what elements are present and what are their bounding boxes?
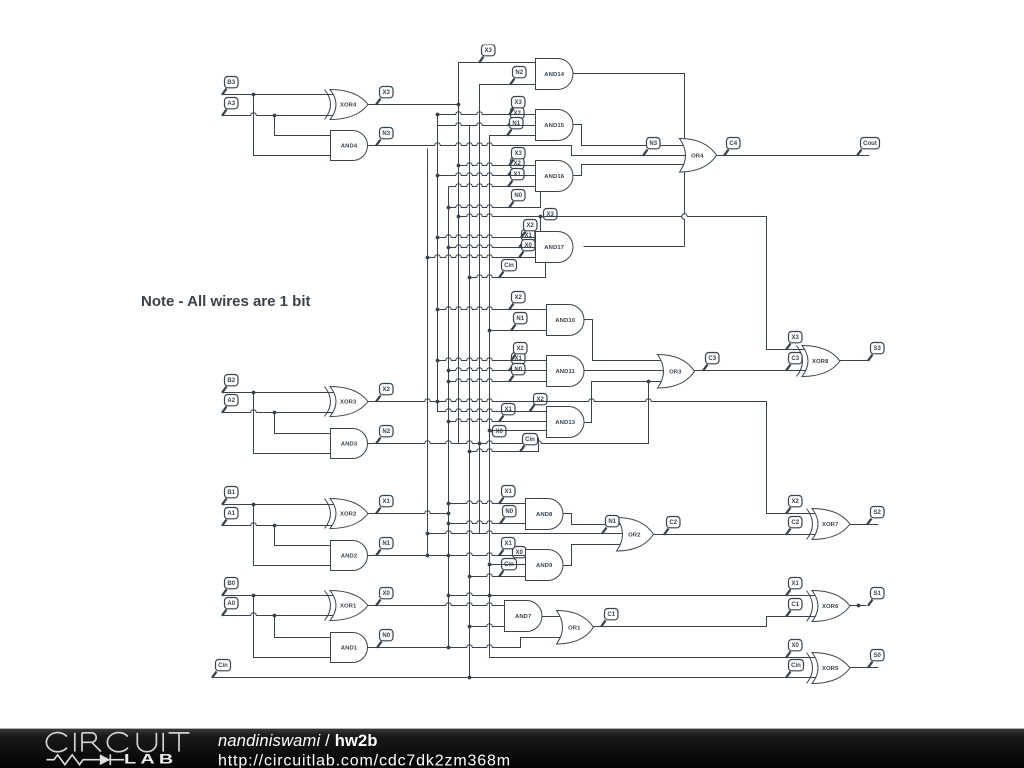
svg-text:C1: C1: [607, 612, 615, 618]
svg-text:X1: X1: [525, 233, 533, 239]
svg-text:X1: X1: [505, 489, 513, 495]
svg-text:AND13: AND13: [555, 420, 575, 426]
svg-text:AND14: AND14: [544, 72, 564, 78]
svg-text:Cin: Cin: [791, 663, 801, 669]
svg-text:C1: C1: [791, 602, 799, 608]
svg-text:AND9: AND9: [536, 563, 553, 569]
svg-text:X3: X3: [515, 100, 523, 106]
svg-text:XOR6: XOR6: [822, 604, 839, 610]
svg-text:N3: N3: [649, 141, 657, 147]
svg-text:X2: X2: [514, 161, 522, 167]
svg-text:AND7: AND7: [515, 614, 532, 620]
svg-text:X3: X3: [485, 48, 493, 54]
svg-text:XOR3: XOR3: [340, 400, 357, 406]
svg-text:AND8: AND8: [536, 512, 553, 518]
svg-text:N0: N0: [382, 633, 390, 639]
svg-text:XOR8: XOR8: [812, 359, 829, 365]
svg-text:X2: X2: [537, 397, 545, 403]
svg-text:S3: S3: [874, 346, 882, 352]
svg-text:X0: X0: [792, 643, 800, 649]
svg-text:X2: X2: [383, 387, 391, 393]
svg-text:nandiniswami / hw2b: nandiniswami / hw2b: [218, 732, 378, 750]
svg-text:B0: B0: [227, 581, 235, 587]
svg-text:X1: X1: [505, 407, 513, 413]
svg-text:XOR5: XOR5: [822, 666, 839, 672]
svg-text:Cin: Cin: [218, 663, 228, 669]
svg-text:Cin: Cin: [504, 263, 514, 269]
svg-text:A3: A3: [227, 101, 235, 107]
svg-text:X2: X2: [517, 346, 525, 352]
svg-text:A2: A2: [227, 398, 235, 404]
svg-text:AND4: AND4: [341, 144, 358, 150]
svg-text:Cout: Cout: [863, 141, 877, 147]
svg-text:N1: N1: [608, 519, 616, 525]
svg-text:OR2: OR2: [628, 533, 641, 539]
svg-text:X3: X3: [792, 335, 800, 341]
svg-text:AND17: AND17: [544, 245, 564, 251]
svg-text:http://circuitlab.com/cdc7dk2z: http://circuitlab.com/cdc7dk2zm368m: [218, 753, 511, 768]
svg-text:AND2: AND2: [341, 554, 358, 560]
svg-text:X2: X2: [527, 223, 535, 229]
svg-text:C3: C3: [708, 356, 716, 362]
svg-text:S2: S2: [874, 510, 882, 516]
svg-text:C3: C3: [791, 356, 799, 362]
svg-text:A0: A0: [227, 601, 235, 607]
svg-text:N0: N0: [514, 193, 522, 199]
svg-text:AND15: AND15: [544, 123, 564, 129]
svg-text:C2: C2: [669, 520, 677, 526]
svg-text:X1: X1: [792, 581, 800, 587]
svg-text:X1: X1: [515, 356, 523, 362]
svg-text:X1: X1: [383, 499, 391, 505]
svg-text:XOR1: XOR1: [340, 604, 357, 610]
svg-text:LAB: LAB: [124, 750, 177, 766]
svg-text:X3: X3: [383, 90, 391, 96]
svg-text:A1: A1: [227, 511, 235, 517]
svg-text:OR4: OR4: [691, 153, 704, 159]
svg-text:B1: B1: [227, 490, 235, 496]
svg-text:B3: B3: [227, 80, 235, 86]
svg-text:X0: X0: [383, 591, 391, 597]
svg-text:X2: X2: [792, 499, 800, 505]
svg-text:C4: C4: [729, 141, 737, 147]
svg-text:N0: N0: [505, 509, 513, 515]
svg-text:OR3: OR3: [669, 369, 682, 375]
svg-text:Cin: Cin: [525, 437, 535, 443]
svg-text:AND16: AND16: [544, 174, 564, 180]
svg-text:Note - All wires are 1 bit: Note - All wires are 1 bit: [141, 293, 311, 310]
svg-text:X1: X1: [505, 541, 513, 547]
svg-text:X0: X0: [525, 243, 533, 249]
svg-text:N2: N2: [382, 429, 390, 435]
svg-text:XOR2: XOR2: [340, 512, 357, 518]
svg-text:AND10: AND10: [555, 318, 575, 324]
svg-text:XOR7: XOR7: [822, 522, 839, 528]
svg-text:N2: N2: [515, 70, 523, 76]
svg-text:N1: N1: [382, 541, 390, 547]
svg-text:X3: X3: [547, 212, 555, 218]
svg-text:C2: C2: [791, 520, 799, 526]
svg-text:S0: S0: [874, 653, 882, 659]
svg-text:S1: S1: [874, 591, 882, 597]
svg-text:N3: N3: [382, 131, 390, 137]
svg-text:N1: N1: [512, 121, 520, 127]
svg-text:Cin: Cin: [504, 562, 514, 568]
svg-text:OR1: OR1: [568, 626, 581, 632]
svg-text:X3: X3: [515, 151, 523, 157]
svg-text:B2: B2: [227, 378, 235, 384]
svg-text:X2: X2: [515, 295, 523, 301]
svg-text:N1: N1: [516, 316, 524, 322]
svg-text:AND11: AND11: [555, 369, 575, 375]
svg-text:AND3: AND3: [341, 442, 358, 448]
svg-text:XOR4: XOR4: [340, 103, 357, 109]
svg-text:AND1: AND1: [341, 646, 358, 652]
